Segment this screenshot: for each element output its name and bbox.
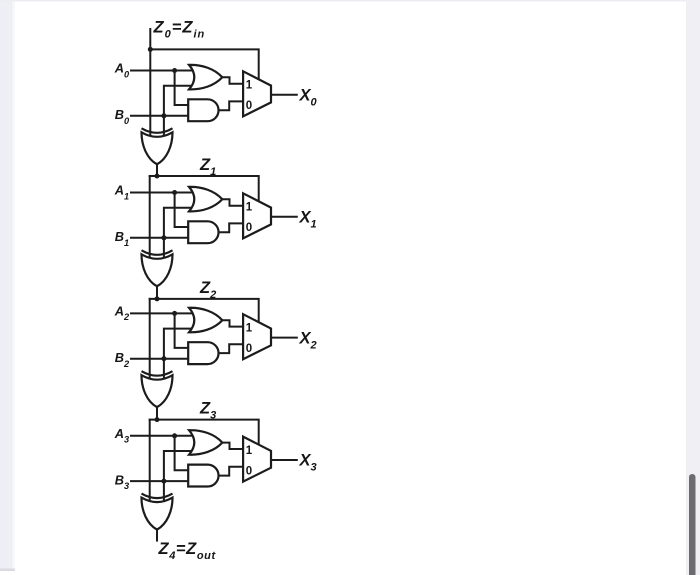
wire XOR output (node Z3)	[156, 407, 158, 420]
and-gate stage 1	[188, 221, 218, 243]
wire Z2 vertical into stage 2	[149, 299, 151, 378]
svg-text:0: 0	[246, 100, 252, 112]
node Z0 (Zin) input wire	[149, 29, 151, 135]
junction on A0	[172, 68, 177, 73]
wire Z1 vertical into stage 1	[149, 176, 151, 257]
wire input A1	[131, 192, 196, 194]
xor-gate stage 2 body	[142, 375, 173, 407]
wire A3 branch to AND gate	[175, 436, 190, 471]
wire B2 branch to OR gate and XOR gate	[164, 329, 196, 379]
junction on A2	[172, 311, 177, 316]
junction on A1	[172, 190, 177, 195]
or-gate stage 0	[189, 65, 222, 90]
wire mux output X3	[271, 459, 297, 461]
wire OR output to mux input 1	[222, 320, 243, 326]
wire input B0	[131, 115, 190, 117]
wire input A0	[131, 70, 196, 72]
mux stage 0	[243, 71, 271, 116]
wire input B1	[131, 237, 190, 239]
wire input B2	[131, 358, 190, 360]
node Z3 wire	[150, 420, 259, 448]
wire OR output to mux input 1	[222, 77, 243, 83]
svg-text:1: 1	[246, 445, 253, 457]
wire input A3	[131, 435, 196, 437]
svg-text:0: 0	[246, 222, 252, 234]
and-gate stage 0	[188, 99, 218, 121]
xor-gate stage 0 body	[142, 132, 173, 164]
mux stage 2	[243, 314, 271, 359]
junction node Z2	[155, 296, 160, 301]
junction node Z3	[155, 417, 160, 422]
page edge shadow bottom-left	[0, 569, 15, 572]
wire mux output X2	[271, 337, 297, 339]
svg-text:0: 0	[246, 343, 252, 355]
wire Z3 vertical into stage 3	[149, 420, 151, 501]
junction on B0	[161, 113, 166, 118]
wire AND output to mux input 0	[219, 344, 244, 353]
xor-gate stage 3 body	[142, 498, 173, 530]
xor-gate stage 3 (input arc)	[142, 494, 173, 499]
or-gate stage 3	[189, 430, 222, 455]
wire Z0 to mux U1 select	[150, 49, 258, 82]
wire input A2	[131, 312, 196, 314]
xor-gate stage 2 (input arc)	[142, 371, 173, 376]
left page margin strip	[0, 0, 13, 569]
wire A1 branch to AND gate	[175, 193, 190, 228]
node Z2 wire	[150, 299, 259, 326]
junction node Z1	[155, 174, 160, 179]
mux stage 3	[243, 437, 271, 482]
wire OR output to mux input 1	[222, 199, 243, 205]
top hairline	[0, 0, 700, 1]
wire AND output to mux input 0	[219, 101, 244, 110]
wire AND output to mux input 0	[219, 223, 244, 232]
svg-text:1: 1	[246, 202, 253, 214]
wire OR output to mux input 1	[222, 443, 243, 449]
xor-gate stage 0 (input arc)	[142, 128, 173, 133]
and-gate stage 3	[188, 465, 218, 487]
node Z1 wire	[150, 176, 259, 205]
wire XOR output (node Z4)	[156, 529, 158, 541]
wire mux output X0	[271, 94, 297, 96]
wire XOR output (node Z2)	[156, 286, 158, 299]
svg-text:0: 0	[246, 465, 252, 477]
or-gate stage 2	[189, 308, 222, 333]
wire AND output to mux input 0	[219, 467, 244, 476]
junction on A3	[172, 433, 177, 438]
scrollbar thumb	[689, 474, 696, 575]
junction on Z0 line	[148, 47, 153, 52]
and-gate stage 2	[188, 342, 218, 364]
xor-gate stage 1 body	[142, 254, 173, 286]
wire A0 branch to AND gate	[175, 71, 190, 106]
junction on B3	[161, 479, 166, 484]
wire B1 branch to OR gate and XOR gate	[164, 208, 196, 258]
svg-text:1: 1	[246, 322, 253, 334]
xor-gate stage 1 (input arc)	[142, 250, 173, 254]
wire B3 branch to OR gate and XOR gate	[164, 451, 196, 501]
wire mux output X1	[271, 216, 297, 218]
mux stage 1	[243, 193, 271, 238]
wire XOR output (node Z1)	[156, 164, 158, 176]
svg-text:1: 1	[246, 80, 253, 92]
wire input B3	[131, 480, 190, 482]
junction on B1	[161, 235, 166, 240]
right scrollbar track	[686, 0, 700, 575]
junction on B2	[161, 356, 166, 361]
or-gate stage 1	[189, 187, 222, 212]
wire A2 branch to AND gate	[175, 313, 190, 348]
wire B0 branch to OR gate and XOR gate	[164, 86, 196, 136]
